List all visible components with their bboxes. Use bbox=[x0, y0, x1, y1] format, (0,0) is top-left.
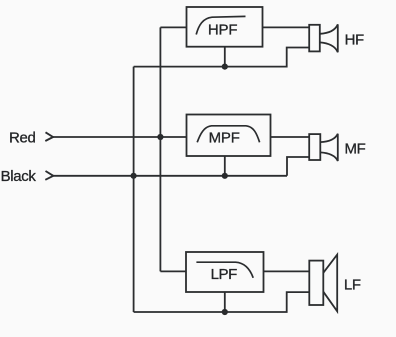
node MPF return junction bbox=[222, 173, 228, 179]
svg-text:HPF: HPF bbox=[208, 22, 237, 39]
svg-text:LPF: LPF bbox=[211, 266, 238, 283]
svg-text:MPF: MPF bbox=[209, 130, 240, 147]
speaker LF bbox=[309, 255, 337, 312]
filter MPF bbox=[187, 115, 271, 157]
wire HPF input bbox=[160, 26, 186, 28]
svg-text:LF: LF bbox=[344, 277, 361, 294]
wire LPF bottom stub bbox=[224, 292, 226, 312]
wire MF return step bbox=[287, 157, 309, 176]
wire MPF output bbox=[271, 136, 310, 138]
filter LPF bbox=[186, 252, 264, 292]
node HPF return junction bbox=[222, 64, 228, 70]
wire Black input bbox=[53, 175, 287, 177]
wire HPF output bbox=[263, 26, 310, 28]
node Red bus junction bbox=[157, 134, 163, 140]
svg-text:Black: Black bbox=[1, 168, 37, 185]
wire LPF input bbox=[160, 270, 186, 272]
wire MPF bottom stub bbox=[224, 156, 226, 176]
input terminal Black chevron bbox=[45, 171, 53, 180]
svg-text:HF: HF bbox=[345, 32, 364, 49]
wire HF return bus bbox=[134, 48, 310, 67]
wire HPF bottom stub bbox=[224, 47, 226, 67]
wire Red input bbox=[53, 136, 187, 138]
wire Black bus vertical bbox=[133, 67, 135, 312]
speaker HF bbox=[309, 24, 338, 52]
input terminal Red chevron bbox=[45, 132, 53, 141]
wire LF return bus bbox=[134, 292, 310, 312]
svg-text:MF: MF bbox=[345, 140, 366, 157]
node LPF return junction bbox=[222, 309, 228, 315]
filter HPF bbox=[187, 7, 263, 47]
wire Red bus vertical bbox=[159, 27, 161, 271]
wire LPF output bbox=[264, 270, 310, 272]
node Black bus junction bbox=[131, 173, 137, 179]
speaker MF bbox=[309, 134, 338, 161]
svg-text:Red: Red bbox=[9, 130, 35, 147]
